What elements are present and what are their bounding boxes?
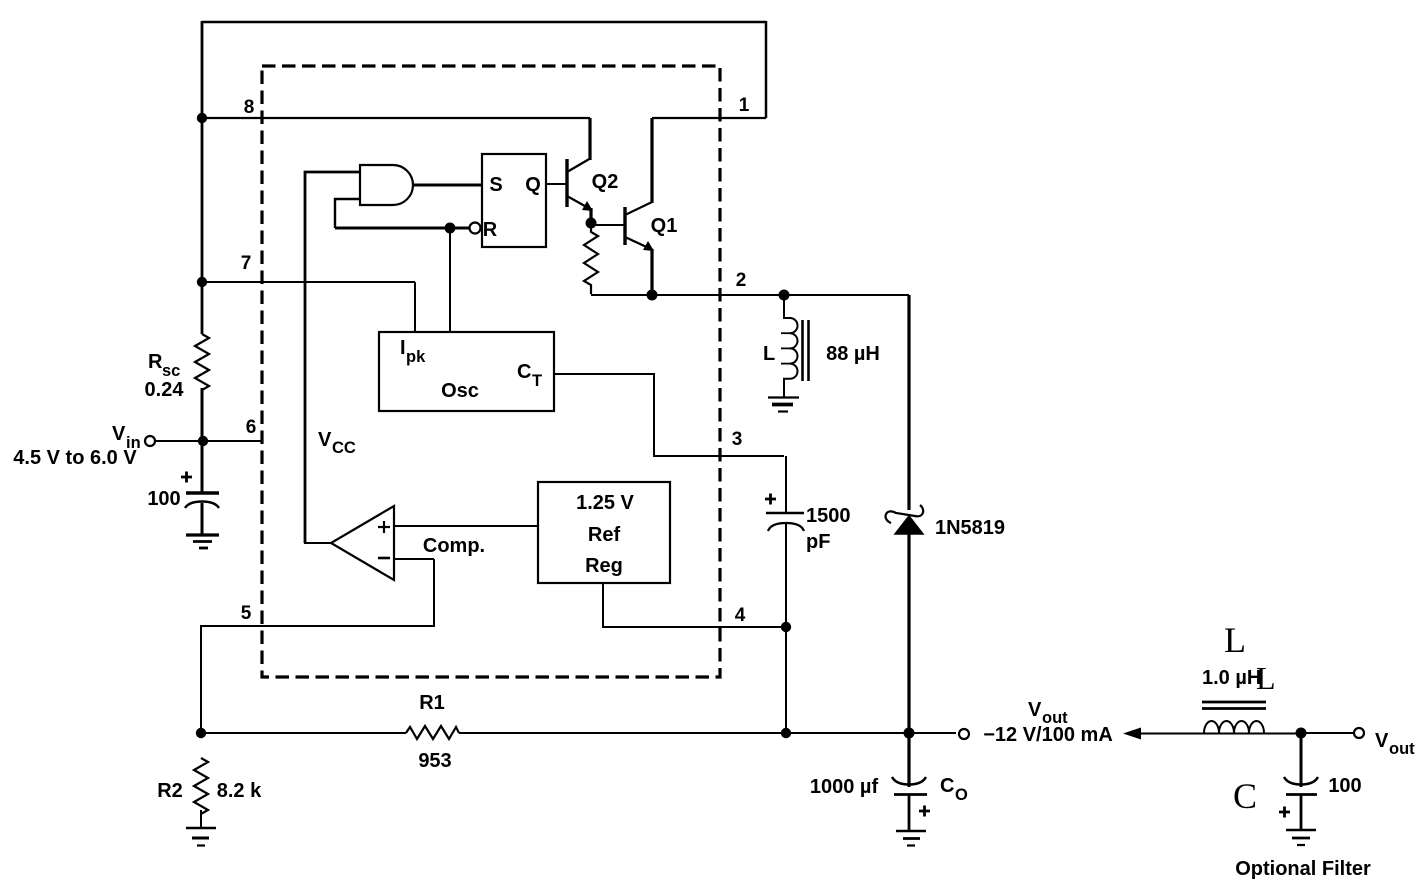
label 1N5819 xyxy=(935,517,1005,539)
label plus 1500 cap xyxy=(765,494,776,505)
latch Q label xyxy=(525,174,541,196)
wire pin7 horizontal xyxy=(202,281,415,283)
svg-text:C: C xyxy=(517,361,531,383)
label Reg xyxy=(585,555,623,577)
svg-text:V: V xyxy=(1375,730,1389,752)
label 1.25 V xyxy=(576,492,634,514)
svg-text:−12 V/100 mA: −12 V/100 mA xyxy=(983,724,1113,746)
label plus Co xyxy=(919,806,930,817)
label Q1 xyxy=(651,215,678,237)
svg-text:Comp.: Comp. xyxy=(423,535,485,557)
label Vin xyxy=(112,423,141,452)
label Optional Filter xyxy=(1235,858,1371,880)
label VCC xyxy=(318,429,356,457)
label Comp. xyxy=(423,535,485,557)
svg-text:CC: CC xyxy=(332,439,356,457)
label Ipk xyxy=(400,337,426,366)
label Ref xyxy=(588,524,621,546)
node filter junction xyxy=(1296,728,1307,739)
ground R2 xyxy=(186,828,216,846)
label plus C filter xyxy=(1279,807,1290,818)
label Vout main xyxy=(1028,699,1068,727)
svg-text:1.0 µH: 1.0 µH xyxy=(1202,667,1261,689)
label 100 filter xyxy=(1328,775,1361,797)
wire bottom rail mid xyxy=(459,732,956,734)
label C serif xyxy=(1233,776,1257,816)
label 1.0 uH with serif L xyxy=(1202,660,1276,696)
label Rsc xyxy=(148,351,180,380)
transistor Q2 xyxy=(567,118,593,222)
comparator minus sign xyxy=(378,557,390,560)
svg-text:1: 1 xyxy=(739,95,750,116)
node pin4-cap junction on rail xyxy=(781,728,791,738)
wire filter to Vout terminal xyxy=(1301,732,1354,734)
wire and-gate bottom input xyxy=(335,199,360,228)
svg-text:Ref: Ref xyxy=(588,524,621,546)
svg-text:L: L xyxy=(1224,620,1246,660)
label R2 xyxy=(157,780,183,802)
svg-text:Reg: Reg xyxy=(585,555,623,577)
svg-text:3: 3 xyxy=(732,429,743,450)
svg-text:out: out xyxy=(1389,740,1415,758)
wire R input horizontal xyxy=(335,227,469,230)
node pin7 junction xyxy=(197,277,207,287)
label Q2 xyxy=(592,171,619,193)
svg-text:5: 5 xyxy=(241,603,252,624)
inductor filter 1.0uH xyxy=(1202,702,1301,734)
wire comparator output to tip xyxy=(304,542,331,544)
svg-text:V: V xyxy=(112,423,126,445)
svg-text:88 µH: 88 µH xyxy=(826,343,880,365)
ground inductor xyxy=(768,398,799,412)
latch R label xyxy=(483,219,498,241)
svg-text:L: L xyxy=(1256,660,1276,696)
pin 2 label xyxy=(736,270,747,291)
svg-text:953: 953 xyxy=(418,750,451,772)
node pin8 junction xyxy=(197,113,207,123)
svg-text:8.2 k: 8.2 k xyxy=(217,780,262,802)
svg-text:7: 7 xyxy=(241,253,252,274)
label 953 xyxy=(418,750,451,772)
svg-text:R2: R2 xyxy=(157,780,183,802)
wire pin5 horizontal xyxy=(201,559,434,733)
latch S label xyxy=(489,174,502,196)
capacitor 100 input xyxy=(185,493,219,534)
svg-text:O: O xyxy=(955,786,968,804)
svg-text:Q1: Q1 xyxy=(651,215,678,237)
svg-text:4: 4 xyxy=(735,605,746,626)
wire S input from and output xyxy=(413,184,482,187)
svg-text:R: R xyxy=(148,351,163,373)
latch U1b box xyxy=(482,154,546,247)
ground C filter xyxy=(1286,830,1316,845)
wire comparator minus down xyxy=(394,558,434,560)
label 88 uH xyxy=(826,343,880,365)
label R1 xyxy=(419,692,445,714)
node pin2-inductor junction xyxy=(779,290,790,301)
wire pin6 horizontal xyxy=(155,440,262,442)
resistor Rsc xyxy=(195,334,209,390)
label Osc xyxy=(441,380,479,402)
svg-text:6: 6 xyxy=(246,417,257,438)
oscillator block Osc xyxy=(379,332,554,411)
node diode junction on rail xyxy=(904,728,915,739)
svg-text:T: T xyxy=(532,372,542,390)
wire and-gate top input xyxy=(305,172,360,543)
wire CT to pin3 xyxy=(554,374,784,456)
label -12V/100mA xyxy=(983,724,1113,746)
capacitor Co xyxy=(892,733,927,831)
svg-text:100: 100 xyxy=(1328,775,1361,797)
wire pin1 right vertical xyxy=(765,21,768,118)
node Q1 emitter junction xyxy=(647,290,658,301)
wire R2 to ground xyxy=(200,810,202,828)
svg-text:2: 2 xyxy=(736,270,747,291)
ground input cap xyxy=(186,535,219,548)
svg-text:S: S xyxy=(489,174,502,196)
pin 8 label xyxy=(244,97,255,118)
svg-text:pk: pk xyxy=(406,348,426,366)
svg-text:pF: pF xyxy=(806,531,830,553)
resistor internal emitter xyxy=(584,226,598,294)
svg-text:C: C xyxy=(940,775,954,797)
wire pin1 horizontal xyxy=(652,117,766,119)
terminal Vout open circle xyxy=(1354,728,1364,738)
label 1000 uf xyxy=(810,776,879,798)
label Vout terminal xyxy=(1375,730,1415,758)
svg-text:1500: 1500 xyxy=(806,505,851,527)
node pin4 junction xyxy=(781,622,791,632)
wire ref reg to pin4 xyxy=(603,583,786,627)
label 8.2 k xyxy=(217,780,262,802)
label L serif xyxy=(1224,620,1246,660)
svg-text:8: 8 xyxy=(244,97,255,118)
svg-text:V: V xyxy=(318,429,332,451)
pin 3 label xyxy=(732,429,743,450)
label plus input cap xyxy=(181,472,192,483)
wire R junction to oscillator xyxy=(449,228,451,332)
arrow output xyxy=(1123,728,1141,740)
wire Q1 base xyxy=(591,224,625,226)
resistor R2 xyxy=(194,758,208,814)
wire Q output to Q2 base xyxy=(546,183,567,185)
ground Co xyxy=(896,831,926,846)
comparator plus sign xyxy=(378,521,390,533)
svg-text:R1: R1 xyxy=(419,692,445,714)
wire pin2 horizontal xyxy=(591,294,909,296)
latch R input bubble xyxy=(470,223,481,234)
pin 6 label xyxy=(246,417,257,438)
svg-text:Osc: Osc xyxy=(441,380,479,402)
pin 5 label xyxy=(241,603,252,624)
node Q2 emitter junction xyxy=(586,218,597,229)
terminal output open circle xyxy=(959,729,969,739)
label L inductor xyxy=(763,343,775,365)
reference regulator block xyxy=(538,482,670,583)
svg-text:1N5819: 1N5819 xyxy=(935,517,1005,539)
wire left rail lower segment xyxy=(201,388,204,492)
pin 1 label xyxy=(739,95,750,116)
svg-text:1000 µf: 1000 µf xyxy=(810,776,879,798)
inductor L 88uH xyxy=(781,295,809,397)
pin 4 label xyxy=(735,605,746,626)
and gate U1a xyxy=(360,165,413,205)
svg-text:Optional Filter: Optional Filter xyxy=(1235,858,1371,880)
label Co xyxy=(940,775,968,804)
label 100 input cap xyxy=(147,488,180,510)
svg-text:100: 100 xyxy=(147,488,180,510)
capacitor 1500 pF xyxy=(766,456,804,627)
wire top rail from pin1 corner to left rail xyxy=(202,21,766,24)
capacitor C filter xyxy=(1284,733,1318,830)
svg-text:0.24: 0.24 xyxy=(145,379,185,401)
svg-text:I: I xyxy=(400,337,406,359)
svg-text:L: L xyxy=(763,343,775,365)
svg-text:sc: sc xyxy=(162,362,180,380)
wire pin4 to rail xyxy=(785,627,787,733)
node bottom-left junction xyxy=(196,728,206,738)
svg-text:Q2: Q2 xyxy=(592,171,619,193)
label 0.24 xyxy=(145,379,185,401)
label CT xyxy=(517,361,542,390)
node pin6 junction xyxy=(198,436,208,446)
terminal Vin open circle xyxy=(145,436,155,446)
wire bottom rail left xyxy=(201,732,406,734)
transistor Q1 xyxy=(625,118,654,295)
wire pin7 to osc xyxy=(414,282,416,332)
wire pin8 horizontal xyxy=(202,117,590,119)
comparator U2 xyxy=(331,506,394,580)
svg-text:Q: Q xyxy=(525,174,541,196)
IC dashed boundary box xyxy=(262,66,720,677)
resistor R1 xyxy=(406,726,459,739)
label 1500 xyxy=(806,505,851,527)
svg-text:C: C xyxy=(1233,776,1257,816)
diode 1N5819 xyxy=(886,295,924,733)
wire comparator plus to ref xyxy=(394,525,538,527)
svg-text:4.5 V to 6.0 V: 4.5 V to 6.0 V xyxy=(13,447,137,469)
svg-text:R: R xyxy=(483,219,498,241)
svg-text:1.25 V: 1.25 V xyxy=(576,492,634,514)
wire arrow to filter coil xyxy=(1138,733,1204,735)
svg-text:V: V xyxy=(1028,699,1042,721)
node R wire junction xyxy=(445,223,456,234)
label 4.5 V to 6.0 V xyxy=(13,447,137,469)
pin 7 label xyxy=(241,253,252,274)
wire left rail vertical xyxy=(201,21,204,334)
label pF xyxy=(806,531,830,553)
